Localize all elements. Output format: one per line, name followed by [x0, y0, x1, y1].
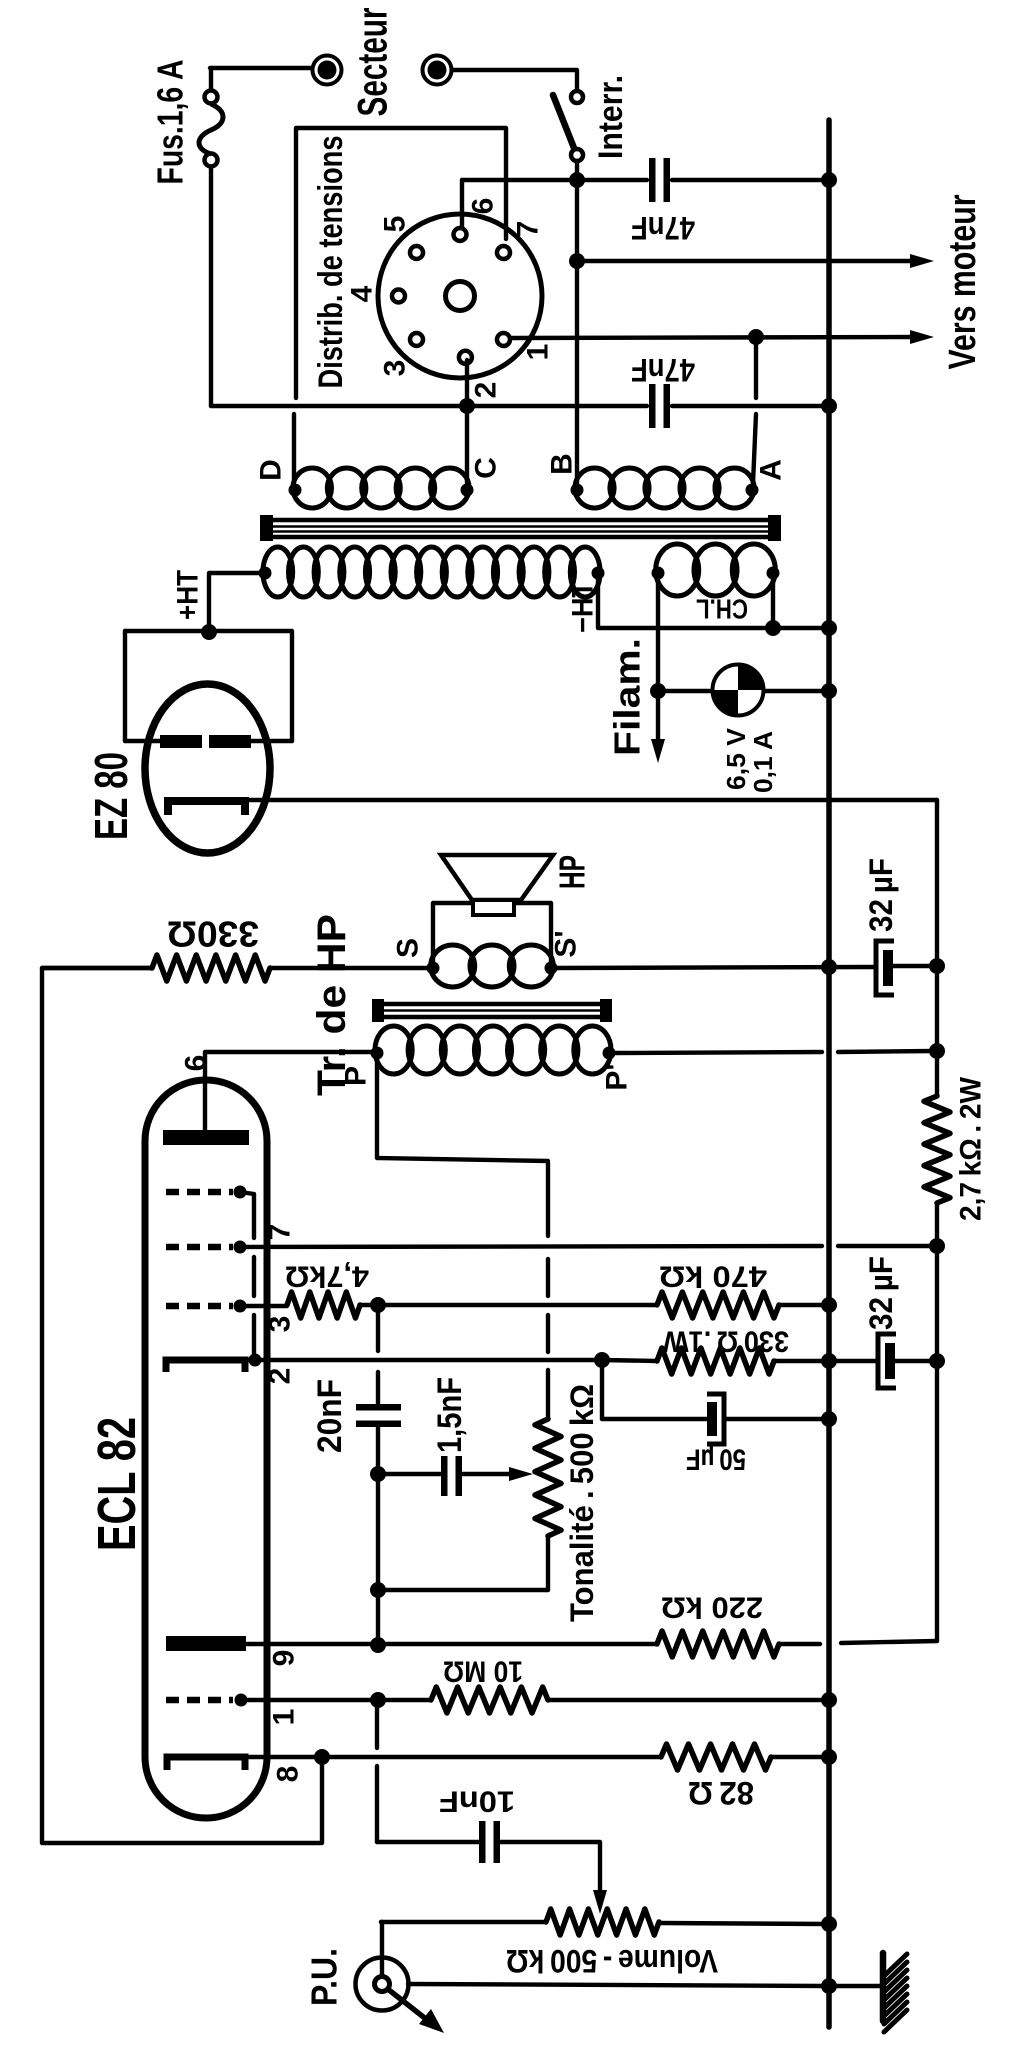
jack P.U.	[356, 1958, 409, 2011]
primary winding D-C	[293, 468, 332, 508]
svg-text:3: 3	[264, 1316, 297, 1333]
svg-text:6,5 V: 6,5 V	[721, 727, 751, 790]
ECL82 pentode cathode	[166, 1360, 245, 1372]
wire triode grid line	[241, 1698, 431, 1702]
wire fuse down to mains line	[209, 167, 213, 406]
wire pin2 drop to C	[465, 360, 469, 406]
wire box to D coil	[292, 414, 296, 482]
capacitor 20nF	[356, 1404, 401, 1411]
wire triode cathode line	[245, 1755, 661, 1759]
svg-text:4: 4	[346, 285, 379, 302]
ECL82 pentode g1	[166, 1303, 233, 1310]
node volume bus	[821, 1916, 837, 1932]
capacitor 1,5nF	[441, 1456, 448, 1496]
pilot lamp 6,5V 0,1A	[713, 665, 764, 716]
svg-text:1: 1	[522, 344, 555, 361]
capacitor C1 47nF plates	[649, 158, 656, 202]
wire pin6 stub	[205, 1052, 377, 1131]
svg-text:EZ 80: EZ 80	[85, 752, 137, 840]
svg-text:2,7 kΩ . 2W: 2,7 kΩ . 2W	[955, 1076, 988, 1221]
svg-text:220 kΩ: 220 kΩ	[661, 1591, 763, 1624]
svg-text:P.U.: P.U.	[304, 1948, 345, 2006]
wire column to triode plate line	[376, 1590, 380, 1645]
svg-text:6: 6	[180, 1055, 213, 1072]
svg-text:Vers moteur: Vers moteur	[942, 194, 984, 369]
node pin3 junction	[370, 1297, 386, 1313]
svg-text:2: 2	[264, 1368, 297, 1385]
wire plate-tone link	[377, 1053, 548, 1161]
node filament line	[650, 683, 666, 699]
wire A column	[754, 337, 758, 398]
svg-text:−HT: −HT	[567, 581, 600, 633]
node CH.L right to -HT line	[765, 620, 781, 636]
wire feedback loop	[42, 968, 322, 1843]
svg-text:+HT: +HT	[172, 570, 205, 620]
node S' line bus	[821, 959, 837, 975]
primary winding B-A	[575, 468, 614, 508]
wire g1 to 4,7k	[240, 1304, 287, 1308]
svg-text:ECL 82: ECL 82	[87, 1417, 147, 1551]
ECL82 pentode anode	[163, 1130, 249, 1145]
svg-text:0,1 A: 0,1 A	[748, 731, 778, 793]
node pin2 junction	[459, 398, 475, 414]
speaker HP horn	[441, 855, 553, 900]
wire rail corner to 220k line	[841, 1641, 937, 1643]
wire g3 to cathode	[240, 1192, 254, 1238]
transformer core	[265, 518, 776, 523]
wire mains corner to socket	[210, 66, 311, 70]
svg-text:47nF: 47nF	[631, 352, 695, 388]
svg-text:P': P'	[601, 1063, 634, 1090]
resistor 82Ohm	[661, 1744, 771, 1770]
node switch column / moteur1	[569, 253, 585, 269]
voltage selector plug socket	[378, 214, 542, 378]
wire socket J2 to switch	[452, 70, 577, 90]
svg-text:10nF: 10nF	[439, 1785, 515, 1818]
wire wiper to tone pot	[462, 1472, 516, 1476]
resistor 330Ohm 1W	[602, 1360, 657, 1361]
arrow vers moteur 2	[910, 330, 934, 344]
wire -HT	[598, 573, 826, 628]
svg-text:9: 9	[268, 1650, 301, 1667]
node 330ohm1w bus	[821, 1353, 837, 1369]
wire mains line y406	[211, 404, 647, 408]
svg-text:Volume - 500 kΩ: Volume - 500 kΩ	[506, 1943, 718, 1979]
wire line pin6-cap-bus	[462, 178, 647, 182]
wire vers-moteur line 1	[577, 259, 920, 263]
wire pin6 drop	[460, 180, 464, 228]
svg-text:1: 1	[268, 1709, 301, 1726]
svg-text:7: 7	[264, 1224, 297, 1241]
node P' rail	[929, 1043, 945, 1059]
wire tone bottom to column	[380, 1588, 548, 1592]
wire P' to +B rail	[615, 1052, 822, 1053]
svg-text:6: 6	[467, 198, 500, 215]
svg-text:P: P	[340, 1066, 373, 1086]
node P.U. bus	[821, 1978, 837, 1994]
wire 1,5nF line	[378, 1472, 441, 1476]
svg-text:3: 3	[379, 360, 412, 377]
wire 220k hop bus to rail corner	[779, 1642, 820, 1646]
node cathode/50uF junction	[594, 1352, 610, 1368]
secondary HV winding	[263, 547, 293, 597]
resistor 470kOhm	[657, 1292, 779, 1318]
rectifier tube EZ80 envelope	[145, 684, 270, 853]
wire pin3 node down	[376, 1305, 380, 1351]
wire pin1 line	[512, 337, 920, 338]
svg-text:82 Ω: 82 Ω	[688, 1775, 754, 1811]
svg-text:470 kΩ: 470 kΩ	[659, 1260, 767, 1293]
node 32uF2 rail	[929, 1353, 945, 1369]
svg-text:10 MΩ: 10 MΩ	[443, 1655, 523, 1688]
node switch/cap junction	[569, 172, 585, 188]
ECL82 pentode g3	[166, 1189, 233, 1196]
mains socket J1 (Secteur)	[313, 56, 342, 85]
svg-text:Distrib. de tensions: Distrib. de tensions	[312, 136, 350, 389]
node grid junction	[370, 1692, 386, 1708]
svg-text:8: 8	[272, 1766, 305, 1783]
ECL82 triode anode	[166, 1636, 246, 1651]
capacitor 50uF	[707, 1402, 717, 1436]
node 32uF1 rail	[929, 958, 945, 974]
svg-text:HP: HP	[552, 855, 593, 889]
ECL82 triode cathode	[167, 1757, 245, 1770]
plug pin holes 1-7	[454, 228, 467, 241]
svg-text:5: 5	[379, 216, 412, 233]
node 1,5nF junction	[370, 1466, 386, 1482]
capacitor 10nF	[479, 1821, 486, 1863]
svg-text:B: B	[546, 453, 579, 475]
wire filament line to lamp	[658, 689, 714, 693]
ground chassis	[880, 1953, 887, 2021]
switch Interr.	[571, 91, 583, 103]
wire S' line to 32uF	[551, 967, 875, 968]
resistor 10MOhm	[431, 1687, 548, 1713]
node C1 line to bus	[821, 172, 837, 188]
svg-text:Interr.: Interr.	[592, 75, 630, 159]
svg-text:50 µF: 50 µF	[686, 1443, 746, 1476]
fuse F1 Fus.1,6A	[209, 68, 213, 90]
node cathode feedback junction	[314, 1749, 330, 1765]
wire bus to ground	[833, 1984, 880, 1988]
svg-text:A: A	[755, 459, 788, 481]
node pin1/A junction	[748, 329, 764, 345]
node 82ohm bus	[821, 1749, 837, 1765]
tone pot track	[546, 1370, 550, 1419]
svg-text:Fus.1,6 A: Fus.1,6 A	[150, 60, 191, 185]
ECL82 pentode g2	[166, 1244, 233, 1251]
EZ80 anode plates	[160, 735, 202, 748]
wire pin3 line to 470k	[378, 1303, 657, 1307]
wire P.U. to bus	[408, 1984, 826, 1986]
resistor 2,7kOhm 2W	[924, 1096, 950, 1203]
node C2 line to bus	[821, 398, 837, 414]
resistor 330 Ohm feedback line	[42, 966, 152, 970]
speaker winding S-S'	[431, 945, 475, 987]
capacitor 32uF no1	[876, 941, 894, 995]
wire 470k to bus	[779, 1303, 826, 1307]
node 1590 junction	[370, 1582, 386, 1598]
svg-text:S: S	[392, 938, 425, 958]
svg-text:330Ω: 330Ω	[167, 914, 259, 955]
resistor 220kOhm	[657, 1631, 779, 1657]
node triode plate junction	[370, 1637, 386, 1653]
svg-text:Secteur: Secteur	[349, 8, 396, 117]
node 10M bus	[821, 1692, 837, 1708]
wire +HT junction	[201, 624, 217, 640]
EZ80 anode box	[125, 631, 292, 741]
node lamp to bus	[821, 683, 837, 699]
svg-text:D: D	[255, 459, 288, 481]
wire 10nF to volume wiper	[500, 1842, 600, 1896]
node -HT to bus	[821, 620, 837, 636]
wire 20nF down column	[376, 1427, 380, 1590]
arrow Filam.	[656, 691, 660, 745]
primary winding P-P'	[375, 1026, 412, 1074]
svg-text:Filam.: Filam.	[607, 638, 648, 756]
node 470k bus	[821, 1297, 837, 1313]
capacitor 32uF no2	[830, 1359, 877, 1363]
wire 50uF branch	[600, 1360, 604, 1419]
svg-text:7: 7	[512, 221, 545, 238]
volume pot track	[381, 1920, 546, 1924]
filament winding CH.L	[656, 544, 699, 596]
bus chassis line	[826, 120, 832, 2027]
wire switch column to B	[575, 180, 579, 483]
wire triode plate line	[246, 1642, 657, 1646]
ECL82 triode grid	[166, 1697, 233, 1704]
speaker frame box	[433, 903, 551, 968]
svg-text:Tonalité . 500 kΩ: Tonalité . 500 kΩ	[564, 1384, 600, 1622]
svg-text:32 µF: 32 µF	[863, 858, 899, 932]
svg-text:2: 2	[470, 382, 503, 399]
wire pin7 to distribution box	[296, 128, 506, 398]
output transformer core	[377, 1002, 607, 1007]
svg-text:330 Ω .1W: 330 Ω .1W	[662, 1325, 789, 1358]
node S junction	[427, 962, 440, 975]
svg-text:32 µF: 32 µF	[863, 1256, 899, 1330]
svg-text:20nF: 20nF	[311, 1379, 349, 1453]
wire tone column hops	[546, 1259, 550, 1296]
node 50uF bus	[821, 1411, 837, 1427]
EZ80 cathode	[168, 801, 245, 815]
wire screen g2 line to rail	[240, 1246, 822, 1247]
svg-text:C: C	[470, 457, 503, 479]
svg-text:S': S'	[550, 930, 583, 957]
wire EZ80 cathode to +B rail	[245, 798, 937, 802]
node screen rail	[929, 1238, 945, 1254]
svg-text:4,7kΩ: 4,7kΩ	[285, 1260, 369, 1293]
wire secondary to +HT	[209, 573, 265, 628]
tube ECL82 envelope	[145, 1080, 267, 1818]
mains socket J2 (Secteur)	[423, 56, 452, 85]
wire grid column down	[375, 1700, 379, 1748]
arrow vers moteur 1	[910, 254, 934, 268]
capacitor C2 47nF plates	[649, 384, 656, 428]
wire CH.L left down	[656, 573, 660, 691]
svg-text:CH.L: CH.L	[696, 594, 748, 625]
svg-text:47nF: 47nF	[631, 210, 695, 246]
wire pentode cathode line	[245, 1358, 602, 1362]
wire P.U. to volume	[381, 1922, 382, 1977]
resistor 4,7kOhm	[287, 1292, 360, 1318]
+B rail	[935, 800, 939, 1096]
svg-text:1,5nF: 1,5nF	[431, 1377, 469, 1453]
